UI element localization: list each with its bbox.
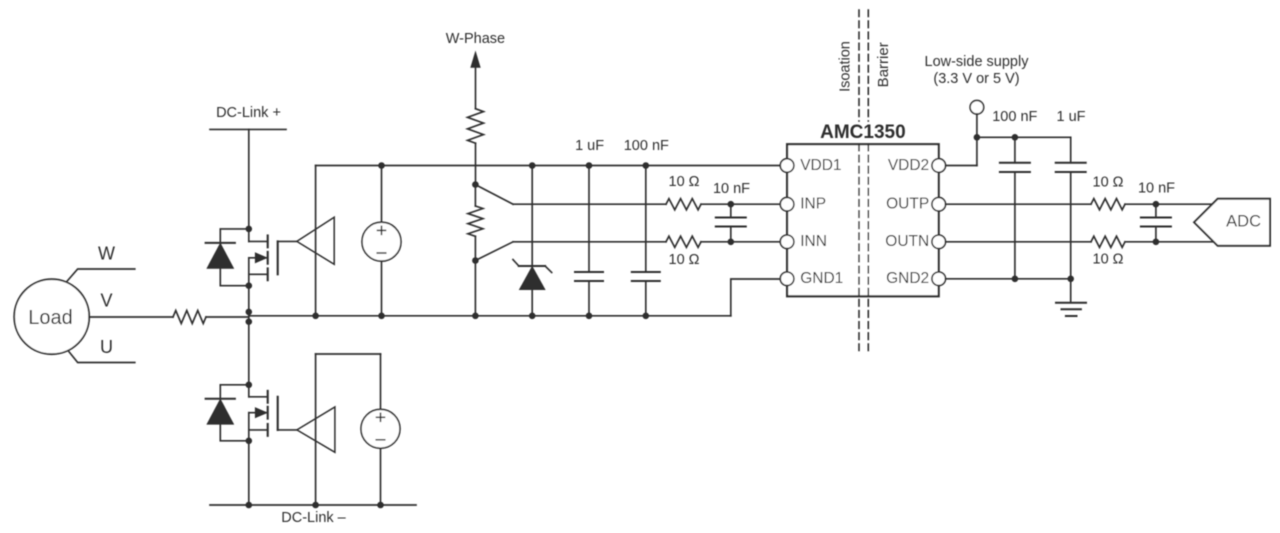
svg-text:VDD1: VDD1 [800, 157, 841, 174]
svg-text:Isoation: Isoation [837, 41, 853, 92]
svg-text:Low-side supply: Low-side supply [925, 54, 1030, 70]
svg-text:1 uF: 1 uF [575, 138, 604, 154]
svg-text:10 Ω: 10 Ω [1093, 175, 1124, 191]
svg-text:100 nF: 100 nF [992, 109, 1037, 125]
svg-text:10 nF: 10 nF [1138, 181, 1175, 197]
svg-text:ADC: ADC [1226, 213, 1261, 231]
svg-text:DC-Link –: DC-Link – [281, 510, 346, 526]
svg-text:GND1: GND1 [800, 270, 843, 287]
svg-text:10 Ω: 10 Ω [1093, 252, 1124, 268]
svg-text:AMC1350: AMC1350 [820, 122, 906, 143]
svg-text:VDD2: VDD2 [888, 157, 929, 174]
svg-text:W: W [98, 243, 115, 263]
svg-text:W-Phase: W-Phase [446, 31, 505, 47]
svg-text:OUTN: OUTN [885, 233, 929, 250]
svg-text:U: U [100, 337, 113, 357]
svg-text:INN: INN [800, 233, 827, 250]
svg-text:V: V [100, 291, 112, 311]
svg-text:100 nF: 100 nF [624, 138, 669, 154]
svg-text:INP: INP [800, 196, 826, 213]
svg-text:Load: Load [28, 307, 73, 329]
svg-text:10 nF: 10 nF [713, 181, 750, 197]
svg-text:1 uF: 1 uF [1056, 109, 1085, 125]
svg-text:OUTP: OUTP [886, 196, 929, 213]
svg-text:(3.3 V or 5 V): (3.3 V or 5 V) [933, 71, 1019, 87]
svg-text:GND2: GND2 [886, 270, 929, 287]
svg-text:10 Ω: 10 Ω [669, 174, 700, 190]
svg-text:DC-Link +: DC-Link + [216, 105, 281, 121]
svg-text:Barrier: Barrier [875, 42, 892, 87]
svg-text:10 Ω: 10 Ω [669, 252, 700, 268]
